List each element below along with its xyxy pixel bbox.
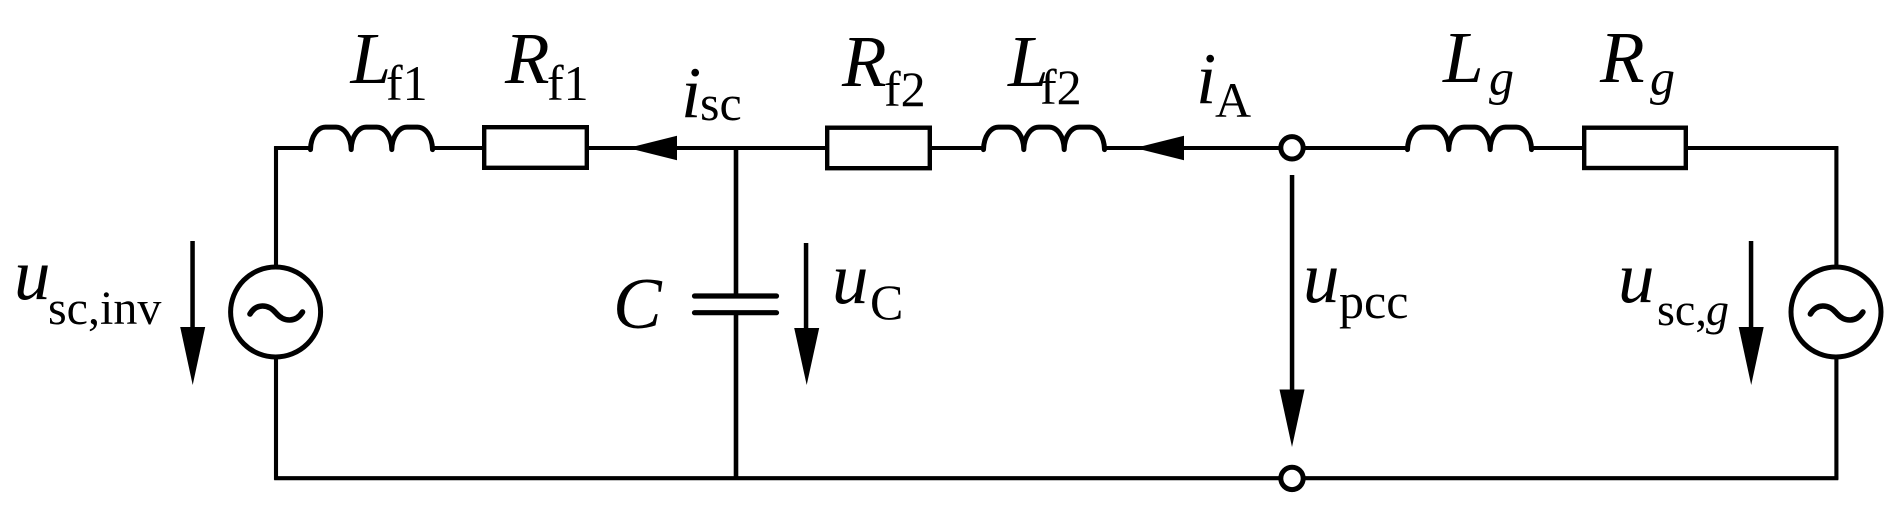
wire Rg to top right corner <box>1684 146 1838 150</box>
wire capacitor branch lower <box>734 314 739 479</box>
wire Lf2 to pcc node <box>1103 146 1292 150</box>
sine wave of left source <box>250 306 303 320</box>
svg-text:sc,: sc, <box>1657 284 1707 335</box>
label u_sc,inv <box>14 234 161 335</box>
current arrow i_sc <box>628 136 677 160</box>
svg-text:C: C <box>870 274 903 330</box>
svg-text:u: u <box>1618 237 1655 318</box>
label i_A <box>1196 38 1251 128</box>
svg-text:L: L <box>1442 17 1484 98</box>
wire left vertical <box>274 146 278 480</box>
svg-text:i: i <box>1196 38 1216 119</box>
ac source u_sc,inv <box>231 267 321 357</box>
voltage arrow u_C <box>794 243 819 385</box>
node pcc top terminal <box>1281 137 1303 159</box>
svg-text:C: C <box>613 263 663 344</box>
svg-text:R: R <box>1599 17 1645 98</box>
label R_f2 <box>841 21 926 117</box>
svg-text:u: u <box>832 238 869 319</box>
svg-text:i: i <box>681 52 701 133</box>
label i_sc <box>681 52 742 133</box>
sine wave of right source <box>1810 306 1863 320</box>
label u_pcc <box>1303 237 1408 329</box>
voltage arrow u_pcc <box>1280 175 1305 447</box>
inductor Lf1 <box>311 127 433 150</box>
node pcc bottom terminal <box>1281 467 1303 489</box>
svg-text:R: R <box>504 18 550 99</box>
inductor Lg <box>1408 127 1532 150</box>
svg-text:u: u <box>1303 237 1340 318</box>
label L_f2 <box>1007 21 1082 115</box>
wire capacitor branch upper <box>734 148 739 295</box>
wire capacitor node to Rf2 <box>734 146 827 150</box>
wire right vertical <box>1834 146 1838 480</box>
voltage arrow u_sc,inv <box>180 241 205 385</box>
svg-text:f2: f2 <box>884 61 926 117</box>
svg-text:L: L <box>350 18 392 99</box>
inductor Lf2 <box>984 127 1105 150</box>
label L_g <box>1442 17 1514 106</box>
wire bottom horizontal <box>274 476 1838 480</box>
current arrow i_A <box>1135 136 1184 160</box>
resistor Rf2 <box>827 128 930 169</box>
resistor Rf1 <box>484 127 587 168</box>
svg-text:g: g <box>1650 50 1675 106</box>
wire between Lf1 and Rf1 <box>433 146 484 150</box>
label R_g <box>1599 17 1675 106</box>
label L_f1 <box>350 18 428 111</box>
svg-text:R: R <box>841 21 887 102</box>
svg-text:g: g <box>1706 284 1729 335</box>
voltage arrow u_sc,g <box>1739 241 1764 385</box>
svg-text:f1: f1 <box>547 55 589 111</box>
wire top left horizontal <box>274 146 312 150</box>
svg-text:f1: f1 <box>386 55 428 111</box>
svg-text:u: u <box>14 234 51 315</box>
wire Lg to Rg <box>1530 146 1586 150</box>
label u_C <box>832 238 903 330</box>
svg-text:sc,inv: sc,inv <box>48 282 161 335</box>
svg-text:sc: sc <box>700 75 742 131</box>
svg-text:g: g <box>1489 50 1514 106</box>
label u_sc,g <box>1618 237 1729 335</box>
wire Rf2 to Lf2 <box>930 146 985 150</box>
capacitor C top plate <box>695 293 777 298</box>
resistor Rg <box>1584 128 1686 168</box>
wire Rf1 to capacitor node <box>587 146 738 150</box>
capacitor C bottom plate <box>695 310 777 315</box>
svg-text:pcc: pcc <box>1339 273 1408 329</box>
svg-text:f2: f2 <box>1040 59 1082 115</box>
label R_f1 <box>504 18 589 111</box>
ac source u_sc,g <box>1791 267 1881 357</box>
wire pcc node to Lg <box>1292 146 1409 150</box>
svg-text:A: A <box>1215 72 1251 128</box>
